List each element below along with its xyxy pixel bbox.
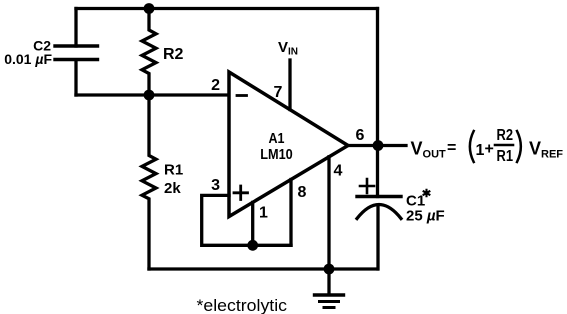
wire bottom rail (149, 267, 378, 270)
svg-text:3: 3 (211, 177, 220, 194)
formula fraction bar (495, 144, 513, 147)
resistor R2 (142, 9, 156, 96)
node junction feedback / pin 1 (247, 240, 258, 251)
resistor R1 (142, 95, 156, 269)
op-amp A1 triangle (229, 72, 348, 217)
svg-text:*electrolytic: *electrolytic (197, 296, 288, 314)
wire output from pin 6 (348, 144, 406, 147)
C1 polarity plus sign (360, 179, 374, 193)
svg-text:1: 1 (476, 142, 485, 159)
svg-text:2k: 2k (164, 180, 181, 197)
svg-text:=: = (447, 140, 456, 157)
svg-text:4: 4 (334, 163, 343, 180)
wire pin 1 lead (251, 202, 254, 245)
svg-text:LM10: LM10 (260, 146, 293, 163)
node junction top rail / R2 (144, 3, 155, 14)
wire pin 3 stub and feedback run (202, 195, 291, 245)
op-amp plus input symbol (234, 186, 248, 200)
wire mid rail to inverting input (76, 93, 229, 96)
node junction bottom rail / ground (324, 264, 335, 275)
svg-text:VOUT: VOUT (411, 139, 447, 161)
svg-text:R2: R2 (163, 46, 184, 63)
svg-text:0.01 µF: 0.01 µF (4, 51, 52, 67)
capacitor C1 electrolytic (357, 146, 401, 270)
wire pin 4 lead (327, 157, 330, 269)
formula left parenthesis (470, 131, 474, 162)
node junction mid rail / R1 (144, 90, 155, 101)
wire top rail (76, 7, 378, 10)
svg-text:25 µF: 25 µF (406, 208, 445, 225)
wire right vertical from top rail to output node (376, 9, 379, 146)
svg-text:R1: R1 (497, 148, 514, 165)
wire pin 7 Vin lead (288, 60, 291, 110)
wire pin 8 lead (289, 180, 292, 246)
svg-text:R2: R2 (497, 127, 514, 144)
svg-text:2: 2 (211, 77, 220, 94)
svg-text:R1: R1 (164, 162, 183, 179)
ground (315, 269, 344, 308)
svg-text:+: + (485, 141, 494, 158)
formula right parenthesis (517, 131, 521, 162)
svg-text:6: 6 (356, 127, 365, 144)
svg-text:7: 7 (274, 84, 283, 101)
capacitor C2 (55, 9, 98, 96)
svg-text:VREF: VREF (529, 139, 563, 161)
svg-text:A1: A1 (269, 130, 285, 147)
svg-text:VIN: VIN (278, 39, 298, 58)
node output junction pin 6 (373, 140, 384, 151)
svg-text:1: 1 (259, 205, 268, 222)
op-amp minus input symbol (237, 94, 247, 97)
svg-text:8: 8 (298, 184, 307, 201)
